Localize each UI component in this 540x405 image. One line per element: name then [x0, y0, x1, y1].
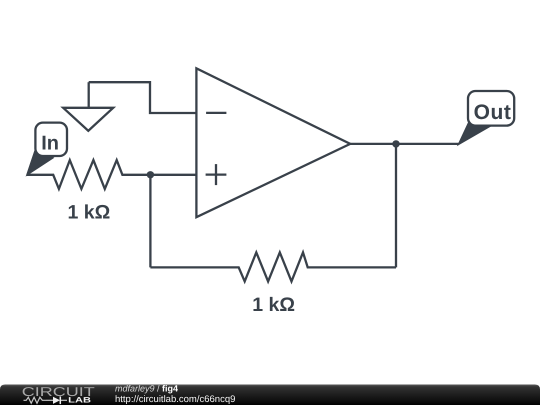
svg-text:In: In — [41, 133, 59, 155]
node In flag — [27, 123, 67, 175]
footer bar — [0, 385, 540, 405]
wire R1 to non-inverting input — [150, 174, 196, 176]
node junction dot at non-inverting input — [147, 171, 154, 178]
wire output — [350, 143, 458, 145]
node junction dot at output — [392, 140, 399, 147]
wire feedback right vertical — [395, 144, 397, 268]
op-amp U1 — [196, 68, 350, 217]
svg-text:Out: Out — [474, 101, 512, 124]
node Out flag — [459, 91, 515, 144]
svg-text:http://circuitlab.com/c66ncq9: http://circuitlab.com/c66ncq9 — [115, 394, 235, 405]
svg-text:1 kΩ: 1 kΩ — [68, 201, 111, 223]
resistor R2 — [150, 252, 396, 281]
svg-text:LAB: LAB — [68, 396, 91, 405]
wire ground to inverting input — [89, 82, 197, 113]
ground — [63, 82, 113, 131]
svg-text:1 kΩ: 1 kΩ — [252, 294, 295, 316]
wire feedback left vertical — [149, 175, 151, 268]
resistor R1 — [27, 160, 150, 189]
CircuitLab logo — [22, 384, 95, 405]
svg-text:mdfarley9 / fig4: mdfarley9 / fig4 — [115, 384, 178, 394]
